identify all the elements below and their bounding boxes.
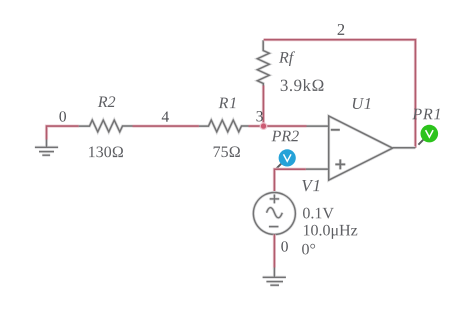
node 3 label [256,111,262,121]
ground GND1 left [35,140,58,156]
wire net 3 Rf bottom lead to junction [262,85,265,92]
probe PR1 pointer [418,140,423,145]
probe PR1 label [412,109,440,120]
op-amp U1 triangle and pins [306,116,416,180]
op-amp non-inverting plus symbol [335,159,345,169]
node 4 label [162,112,169,122]
junction node 3 dot [260,122,268,130]
Rf designator label [279,51,295,66]
probe PR2 blue circle [279,149,296,166]
R1 value 75 ohm [214,146,240,157]
probe PR2 label [272,131,299,142]
R2 designator label [98,96,116,107]
wire net 3 from R1 to op-amp inverting input [249,124,307,127]
U1 designator label [353,98,370,109]
R2 value 130 ohm [89,146,123,157]
Rf value 3.9k ohm [281,79,324,91]
wire net 0 from ground to node 0 [47,126,80,141]
node 2 label [338,24,345,35]
op-amp inverting minus symbol [331,128,340,131]
probe PR2 pointer [276,164,281,169]
wire net 3 junction up to Rf bottom [262,91,265,126]
wire net 0 from V1 minus terminal to ground [273,235,276,270]
ground GND2 bottom [263,268,286,286]
V1 designator label [302,180,319,191]
probe PR1 green circle [421,125,439,143]
probe PR2 V letter [284,154,292,161]
V1 frequency value 10.0uHz [304,225,357,239]
resistor Rf feedback [257,40,269,85]
resistor R1 [199,120,249,132]
wire from V1 plus terminal to op-amp non-inverting input [274,169,305,192]
resistor R2 [79,120,133,132]
wire net 2 feedback from Rf top to op-amp output [264,40,416,148]
wire net 4 between R2 and R1 [133,124,200,127]
voltage source V1 symbol [253,193,295,235]
node 0 label bottom [281,241,288,251]
node 0 label left [59,111,66,121]
V1 phase value 0 degrees [302,244,315,255]
probe PR1 V letter [426,130,434,137]
R1 designator label [219,98,236,109]
V1 amplitude value 0.1V [303,208,334,219]
